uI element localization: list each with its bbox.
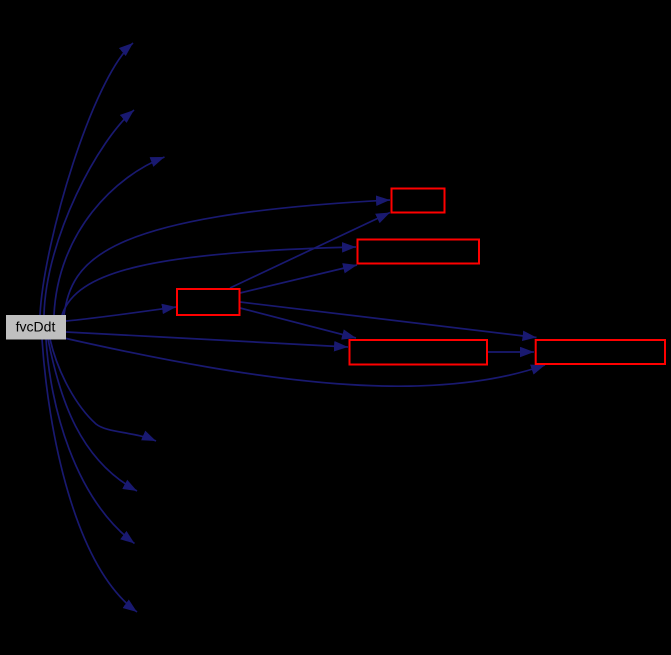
node box1 — [392, 189, 445, 213]
edge fvcDdt->box4 — [66, 332, 348, 347]
edge fvcDdt->hidden-top-1 — [40, 43, 133, 315]
edge fvcDdt->hidden-top-3 — [54, 157, 165, 315]
edge box3->box1 — [230, 213, 390, 289]
edge fvcDdt->hidden-bottom-3 — [46, 339, 135, 544]
node box5 — [536, 340, 665, 364]
edge box3->box2 — [240, 265, 357, 293]
edge fvcDdt->hidden-top-2 — [44, 110, 134, 315]
node fvcDdt — [6, 315, 66, 340]
edge fvcDdt->box1 — [64, 200, 390, 315]
node box3 — [177, 289, 240, 315]
edge fvcDdt->box2 — [62, 247, 356, 315]
node box4 — [350, 340, 488, 365]
edge fvcDdt->hidden-bottom-4 — [42, 339, 137, 612]
svg-text:fvcDdt: fvcDdt — [16, 319, 56, 335]
edge fvcDdt->box3 — [66, 307, 176, 321]
edge box4->box5 — [488, 351, 534, 353]
node box2 — [358, 240, 480, 264]
edge box3->box5 — [240, 302, 537, 338]
edge fvcDdt->box5 (long bottom curve) — [64, 338, 545, 386]
edge box3->box4 — [240, 308, 356, 338]
edge fvcDdt->hidden-bottom-2 — [48, 339, 137, 491]
edge fvcDdt->hidden-bottom-1 — [50, 339, 156, 441]
